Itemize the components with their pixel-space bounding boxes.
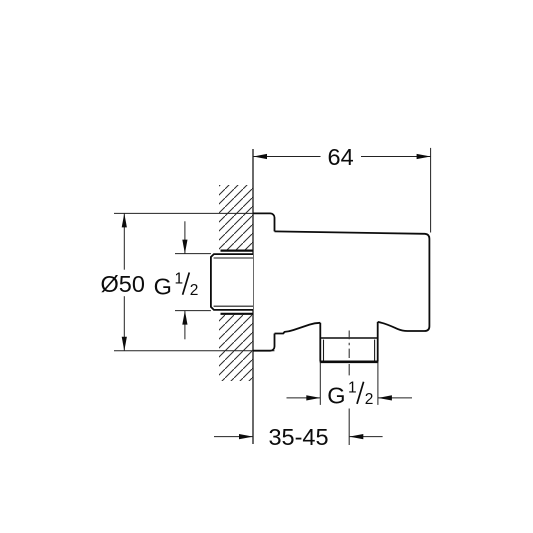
outlet thread right chamfer line	[374, 340, 376, 362]
centerline of outlet	[348, 331, 350, 446]
bottom G1/2 right arrowhead	[378, 395, 392, 400]
escutcheon flange top	[253, 213, 275, 231]
outlet thread right side	[377, 338, 379, 362]
svg-text:G: G	[154, 273, 172, 299]
outlet neck right side	[377, 322, 379, 338]
dimension 64 line right part	[361, 156, 431, 158]
dimension 64 right arrowhead	[417, 154, 431, 159]
left G1/2 label slash	[183, 273, 190, 295]
dimension 35-45 left arrow line	[214, 436, 253, 438]
bottom G1/2 label slash	[357, 382, 364, 404]
outlet thread left chamfer line	[323, 340, 325, 362]
body outline bottom left contour	[275, 323, 321, 334]
nipple height lower arrowhead	[182, 311, 187, 325]
svg-text:1: 1	[348, 379, 357, 396]
Ø50 top extension line	[114, 212, 253, 214]
dimension Ø50 line lower part	[123, 296, 125, 351]
dimension 64 line left part	[253, 156, 321, 158]
nipple height lower arrow line	[184, 311, 186, 340]
Ø50 bottom extension line	[114, 350, 275, 352]
svg-text:35-45: 35-45	[268, 424, 328, 450]
outlet thread left side	[319, 338, 321, 362]
svg-text:G: G	[327, 382, 345, 408]
wall hatching lower band	[219, 314, 253, 381]
escutcheon flange bottom	[253, 334, 275, 351]
nipple height bottom extension line	[175, 310, 211, 312]
outlet thread end face	[320, 360, 378, 363]
dimension 35-45 right arrowhead	[349, 434, 363, 439]
wall surface line	[252, 149, 254, 444]
dimension Ø50 top arrowhead	[122, 213, 127, 227]
inlet nipple G1/2 outline	[211, 254, 253, 310]
bottom G1/2 left arrowhead	[306, 395, 320, 400]
svg-text:1: 1	[175, 270, 184, 287]
dimension Ø50 bottom arrowhead	[122, 337, 127, 351]
outlet neck left side	[319, 323, 321, 338]
nipple height top extension line	[175, 253, 211, 255]
nipple height upper arrow line	[184, 221, 186, 253]
inlet nipple inner top line	[214, 257, 253, 259]
bottom G1/2 left extension line	[319, 362, 321, 405]
svg-text:64: 64	[328, 144, 354, 170]
dimension 64 left arrowhead	[253, 154, 267, 159]
nipple height upper arrowhead	[182, 240, 187, 254]
outlet thread top line	[320, 337, 377, 339]
svg-text:2: 2	[365, 391, 374, 408]
wall hatching upper band	[219, 185, 253, 251]
svg-text:2: 2	[190, 282, 199, 299]
dimension 64 right extension line	[430, 148, 432, 233]
dimension 35-45 left arrowhead	[239, 434, 253, 439]
svg-text:Ø50: Ø50	[101, 271, 145, 297]
dimension Ø50 line upper part	[123, 213, 125, 269]
inlet nipple inner bottom line	[214, 305, 253, 307]
bottom G1/2 right extension line	[377, 362, 379, 405]
wall hole top edge	[221, 250, 254, 252]
dimension 35-45 right arrow line	[349, 436, 382, 438]
bottom G1/2 right arrow line	[378, 397, 412, 399]
body outline top and right	[275, 231, 430, 331]
bottom G1/2 left arrow line	[287, 397, 321, 399]
wall hole bottom edge	[221, 313, 254, 315]
